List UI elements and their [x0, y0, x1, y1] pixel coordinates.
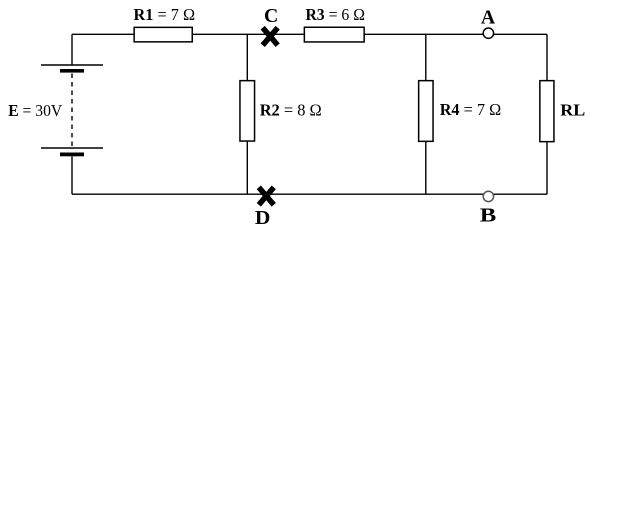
svg-text:C: C — [264, 5, 278, 27]
svg-text:R2 = 8 Ω: R2 = 8 Ω — [260, 101, 322, 120]
terminal node B circle — [483, 191, 493, 201]
battery E cell 1 short thick plate — [60, 69, 84, 73]
switch cross X at node C — [263, 28, 278, 46]
battery E cell 2 short thick plate — [60, 153, 84, 157]
battery E cell 2 long plate — [41, 147, 103, 149]
svg-text:E = 30V: E = 30V — [8, 101, 62, 120]
wire: left branch lower segment (battery - to bottom bus) — [71, 156, 73, 194]
switch cross X at node D — [259, 187, 274, 205]
wire: top horizontal bus — [72, 33, 547, 35]
label node B — [480, 204, 497, 226]
wire: R2 branch vertical — [246, 34, 248, 194]
wire: RL branch vertical (right edge) — [546, 34, 548, 194]
svg-text:R1 = 7 Ω: R1 = 7 Ω — [134, 5, 196, 24]
resistor R1 body — [134, 27, 192, 41]
terminal node A circle — [483, 28, 493, 38]
label node C — [264, 5, 278, 27]
resistor R3 body — [304, 27, 364, 42]
wire: bottom horizontal bus — [72, 193, 547, 195]
label node D — [255, 207, 271, 229]
battery E cell 1 long plate — [41, 64, 103, 66]
resistor R2 body — [240, 81, 255, 141]
label R2 = 8 Omega — [260, 101, 322, 120]
label E = 30V — [8, 101, 62, 120]
label node A — [481, 7, 496, 29]
wire: R4 branch vertical — [425, 34, 427, 194]
wire: left branch upper segment (battery + to top bus) — [71, 34, 73, 65]
label RL — [560, 101, 585, 120]
label R1 = 7 Omega — [134, 5, 196, 24]
svg-text:R3 = 6 Ω: R3 = 6 Ω — [305, 5, 365, 24]
resistor RL body — [540, 81, 554, 142]
label R4 = 7 Omega — [440, 100, 502, 119]
svg-text:D: D — [255, 207, 271, 229]
resistor R4 body — [419, 81, 433, 142]
svg-text:A: A — [481, 7, 496, 29]
svg-text:B: B — [480, 204, 497, 226]
svg-text:RL: RL — [560, 101, 585, 120]
battery E dashed link between cells — [71, 74, 73, 147]
svg-text:R4 = 7 Ω: R4 = 7 Ω — [440, 100, 502, 119]
label R3 = 6 Omega — [305, 5, 365, 24]
